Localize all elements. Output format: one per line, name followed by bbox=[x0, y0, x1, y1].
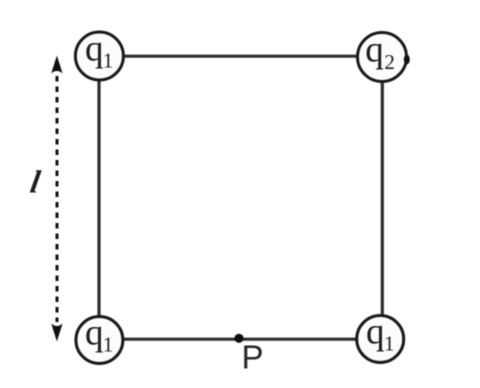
charge q1 bottom-left bbox=[76, 313, 123, 364]
svg-text:1: 1 bbox=[384, 332, 395, 356]
svg-text:l: l bbox=[28, 164, 43, 200]
label l (side length) bbox=[28, 164, 43, 200]
svg-text:1: 1 bbox=[103, 333, 114, 357]
dimension arrow (dashed, double-headed) for side length bbox=[51, 56, 62, 342]
svg-text:q: q bbox=[85, 313, 104, 354]
node P dot on bottom wire bbox=[234, 334, 243, 343]
svg-text:q: q bbox=[366, 312, 385, 353]
charge q1 bottom-right bbox=[357, 312, 404, 363]
svg-text:P: P bbox=[242, 338, 264, 375]
svg-text:q: q bbox=[85, 29, 104, 70]
charge q1 top-left bbox=[75, 29, 123, 81]
wire top side of square bbox=[99, 55, 382, 58]
svg-text:1: 1 bbox=[103, 49, 114, 73]
charge q2 top-right bbox=[358, 30, 410, 82]
wire right side of square bbox=[381, 56, 384, 339]
wire left side of square bbox=[97, 56, 100, 339]
svg-text:q: q bbox=[365, 30, 384, 71]
wire bottom side of square bbox=[99, 338, 381, 341]
svg-text:2: 2 bbox=[384, 50, 395, 74]
